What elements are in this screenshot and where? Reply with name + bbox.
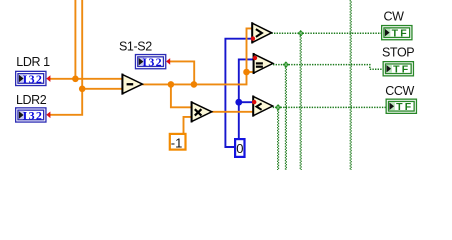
greater-than function bbox=[252, 22, 271, 43]
wire: LDR1 branch to top edge bbox=[74, 0, 76, 79]
indicator STOP (TF terminal) bbox=[383, 62, 413, 76]
svg-text:TF: TF bbox=[393, 64, 410, 76]
svg-text:LDR 1: LDR 1 bbox=[16, 55, 50, 69]
junction dot on LDR1 wire bbox=[72, 76, 79, 83]
junction dot: main wire to multiply bbox=[168, 81, 175, 88]
wire: stub into equal bottom input bbox=[247, 71, 254, 73]
wire: green dotted vertical from CW junction to bottom edge bbox=[299, 33, 301, 170]
svg-text:STOP: STOP bbox=[382, 46, 414, 60]
constant -1 bbox=[170, 134, 186, 150]
svg-text:-1: -1 bbox=[171, 135, 183, 150]
junction dot on LDR2 wire bbox=[79, 86, 86, 93]
svg-text:I32: I32 bbox=[142, 55, 163, 69]
junction dot: S1-S2 joins main wire bbox=[191, 81, 198, 88]
red feed arrow into LDR1 bbox=[46, 75, 50, 82]
wire: LDR2 branch to top edge bbox=[50, 0, 82, 115]
wire: 0 constant top branch up to equal top input bbox=[239, 59, 254, 138]
wire: LDR1 to subtract top input bbox=[50, 78, 123, 80]
wire: 0 constant left branch to greater-than bottom input bbox=[225, 39, 252, 147]
constant 0 bbox=[235, 139, 244, 157]
junction dot: blue wire branch to less-than bbox=[235, 99, 242, 106]
indicator LDR1 (I32 terminal) bbox=[16, 71, 46, 85]
wire: blue branch to less-than top input bbox=[239, 101, 254, 103]
red feed arrow into LDR2 bbox=[46, 112, 50, 119]
svg-text:CW: CW bbox=[384, 10, 405, 24]
junction diamond on CCW wire bbox=[275, 104, 282, 111]
wire: S1-S2 terminal down to main wire bbox=[170, 61, 195, 84]
equal function bbox=[254, 53, 273, 74]
subtract function bbox=[122, 74, 142, 95]
multiply function bbox=[192, 101, 212, 122]
less-than function bbox=[253, 96, 273, 117]
coercion dot on less-than input bbox=[252, 100, 256, 104]
svg-text:TF: TF bbox=[392, 28, 409, 40]
coercion dot on greater-than input bbox=[251, 36, 255, 40]
red feed arrow into S1-S2 bbox=[166, 58, 170, 65]
wire: LDR2 junction to subtract bottom input bbox=[82, 88, 122, 90]
wire: green dotted greater-than output to CW bbox=[271, 32, 381, 34]
indicator CW (TF terminal) bbox=[382, 26, 412, 40]
svg-text:LDR2: LDR2 bbox=[16, 93, 47, 107]
junction diamond on CW wire bbox=[297, 30, 304, 37]
svg-text:TF: TF bbox=[396, 101, 413, 113]
wire: green dotted vertical crossing full height bbox=[349, 0, 351, 170]
wire: multiply output to less-than bottom input bbox=[212, 111, 254, 113]
wire: green dotted less-than output to CCW bbox=[273, 106, 386, 108]
coercion dot on equal input bbox=[253, 56, 257, 60]
junction dot: equal input branch bbox=[243, 69, 250, 76]
wire: main subtract output bbox=[142, 28, 252, 84]
wire: green dotted equal output to STOP with jog bbox=[273, 65, 382, 70]
svg-text:I32: I32 bbox=[23, 108, 44, 122]
indicator S1-S2 (I32 terminal) bbox=[135, 55, 165, 69]
svg-text:I32: I32 bbox=[23, 72, 44, 86]
svg-text:0: 0 bbox=[236, 141, 243, 156]
wire: green dotted vertical from CCW junction to bottom edge bbox=[277, 107, 279, 170]
svg-text:CCW: CCW bbox=[385, 84, 414, 98]
wire: branch down to multiply top input bbox=[171, 84, 192, 107]
svg-text:S1-S2: S1-S2 bbox=[119, 39, 152, 53]
wire: -1 constant to multiply bottom input bbox=[184, 117, 192, 133]
junction diamond on STOP wire bbox=[283, 61, 290, 68]
wire: green dotted vertical from STOP junction to bottom edge bbox=[284, 65, 286, 170]
indicator CCW (TF terminal) bbox=[386, 99, 416, 113]
indicator LDR2 (I32 terminal) bbox=[16, 108, 46, 122]
